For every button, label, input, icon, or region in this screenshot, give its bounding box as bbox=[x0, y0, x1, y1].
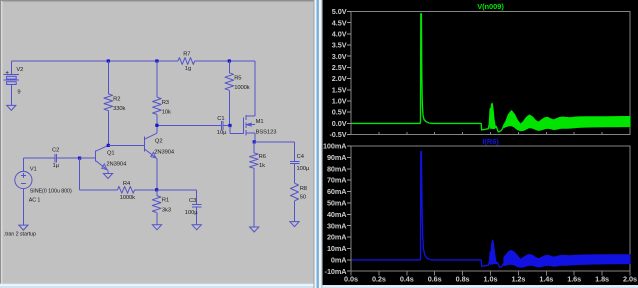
svg-text:V1: V1 bbox=[30, 166, 37, 172]
node C1-R5-gate junction bbox=[228, 124, 231, 127]
svg-text:4.0V: 4.0V bbox=[332, 29, 347, 38]
wire top supply rail left segment bbox=[11, 60, 178, 62]
svg-text:10mA: 10mA bbox=[327, 244, 347, 253]
svg-text:SINE(0 100u 800): SINE(0 100u 800) bbox=[30, 189, 72, 195]
resistor R3 10k bbox=[153, 61, 171, 125]
svg-text:C4: C4 bbox=[297, 154, 305, 160]
resistor R6 1k bbox=[250, 142, 266, 227]
svg-text:0.4s: 0.4s bbox=[400, 275, 414, 284]
svg-text:0.0s: 0.0s bbox=[344, 275, 358, 284]
ground below V2 bbox=[7, 105, 16, 110]
svg-text:C1: C1 bbox=[217, 116, 224, 122]
svg-text:1g: 1g bbox=[185, 66, 191, 72]
svg-text:R7: R7 bbox=[183, 51, 190, 57]
svg-text:3.0V: 3.0V bbox=[332, 52, 347, 61]
svg-text:Q2: Q2 bbox=[155, 139, 163, 145]
capacitor C2 1u bbox=[23, 148, 79, 169]
waveform pane 2 border bbox=[351, 146, 630, 271]
svg-text:1µ: 1µ bbox=[53, 163, 60, 169]
svg-text:1.4s: 1.4s bbox=[539, 275, 553, 284]
resistor R5 1000k bbox=[225, 61, 250, 126]
svg-text:1000k: 1000k bbox=[120, 195, 136, 201]
wire node A to C1 bbox=[157, 124, 221, 126]
transistor Q1 2N3904 bbox=[80, 145, 127, 173]
resistor R1 3k3 bbox=[152, 190, 171, 225]
svg-text:100mA: 100mA bbox=[323, 142, 347, 151]
waveform pane 1 border bbox=[351, 12, 630, 135]
resistor R4 1000k bbox=[118, 181, 136, 201]
svg-text:5.0V: 5.0V bbox=[332, 7, 347, 16]
y axis labels pane 1 bbox=[329, 7, 351, 139]
svg-text:3k3: 3k3 bbox=[162, 207, 171, 213]
capacitor C3 100u bbox=[185, 190, 202, 225]
svg-text:I(R6): I(R6) bbox=[482, 137, 499, 146]
svg-text:BSS123: BSS123 bbox=[256, 130, 277, 136]
wire node to C3 bbox=[157, 189, 197, 191]
svg-text:-0.5V: -0.5V bbox=[329, 130, 346, 139]
svg-text:9: 9 bbox=[17, 89, 20, 95]
wire R4 to emitter node bbox=[135, 189, 157, 191]
battery V2 9V bbox=[3, 61, 23, 105]
wire Q1 collector to Q2 base bbox=[108, 144, 144, 146]
ground below V1 bbox=[19, 225, 28, 230]
svg-text:0.2s: 0.2s bbox=[372, 275, 386, 284]
node rail-R3 junction bbox=[155, 59, 158, 62]
svg-text:90mA: 90mA bbox=[327, 153, 347, 162]
svg-text:100µ: 100µ bbox=[297, 166, 310, 172]
ground below R1 bbox=[152, 225, 161, 230]
svg-text:70mA: 70mA bbox=[327, 176, 347, 185]
svg-text:1.8s: 1.8s bbox=[595, 275, 609, 284]
svg-text:.tran 2 startup: .tran 2 startup bbox=[4, 231, 36, 237]
x axis labels bbox=[344, 132, 637, 284]
svg-text:R5: R5 bbox=[234, 76, 241, 82]
svg-text:1.0V: 1.0V bbox=[332, 97, 347, 106]
wire output node to C4 branch bbox=[254, 141, 295, 143]
ground below C3 bbox=[192, 225, 201, 230]
svg-text:50mA: 50mA bbox=[327, 199, 347, 208]
capacitor C4 100u bbox=[290, 142, 310, 183]
resistor R8 50 bbox=[291, 183, 307, 221]
capacitor C1 10u bbox=[217, 116, 230, 136]
trace V(n009) green bbox=[352, 14, 631, 132]
node Q2 collector junction bbox=[155, 124, 158, 127]
node Q1 collector junction bbox=[107, 144, 110, 147]
svg-text:0.6s: 0.6s bbox=[428, 275, 442, 284]
wire top supply rail right segment bbox=[195, 60, 256, 62]
svg-text:+: + bbox=[5, 69, 9, 76]
svg-text:R1: R1 bbox=[162, 198, 169, 204]
ground below R8 bbox=[290, 222, 299, 227]
trace I(R6) blue bbox=[352, 152, 631, 268]
svg-text:R6: R6 bbox=[259, 154, 266, 160]
svg-text:100µ: 100µ bbox=[185, 210, 198, 216]
svg-text:1k: 1k bbox=[259, 163, 265, 169]
svg-text:AC 1: AC 1 bbox=[29, 197, 41, 203]
svg-text:R4: R4 bbox=[123, 181, 131, 187]
svg-text:R3: R3 bbox=[162, 100, 169, 106]
voltage source V1 SINE bbox=[15, 158, 72, 225]
svg-text:R8: R8 bbox=[300, 186, 307, 192]
svg-text:1.2s: 1.2s bbox=[511, 275, 525, 284]
svg-text:C3: C3 bbox=[189, 198, 196, 204]
svg-text:V(n009): V(n009) bbox=[477, 2, 504, 11]
svg-text:1.5V: 1.5V bbox=[332, 85, 347, 94]
svg-text:2.0V: 2.0V bbox=[332, 74, 347, 83]
node emitter-R1-C3 junction bbox=[155, 188, 158, 191]
svg-text:50: 50 bbox=[300, 194, 306, 200]
svg-text:Q1: Q1 bbox=[107, 150, 115, 156]
svg-text:1.6s: 1.6s bbox=[567, 275, 581, 284]
ground below R6 bbox=[250, 227, 259, 232]
svg-text:60mA: 60mA bbox=[327, 187, 347, 196]
wire base node down bbox=[79, 158, 81, 190]
svg-text:0mA: 0mA bbox=[331, 255, 347, 264]
svg-text:0.5V: 0.5V bbox=[332, 108, 347, 117]
svg-text:330k: 330k bbox=[113, 106, 125, 112]
svg-text:40mA: 40mA bbox=[327, 210, 347, 219]
svg-text:M1: M1 bbox=[256, 119, 264, 125]
svg-text:V2: V2 bbox=[16, 67, 23, 73]
svg-text:2N3904: 2N3904 bbox=[154, 149, 175, 155]
node C2-base junction bbox=[78, 157, 81, 160]
wire to R4 bbox=[80, 189, 118, 191]
svg-text:10µ: 10µ bbox=[217, 130, 227, 136]
svg-text:C2: C2 bbox=[52, 148, 59, 154]
resistor R7 bbox=[178, 51, 195, 72]
svg-text:10k: 10k bbox=[162, 110, 171, 116]
svg-text:0.8s: 0.8s bbox=[456, 275, 470, 284]
svg-text:2.5V: 2.5V bbox=[332, 63, 347, 72]
node rail-R5 junction bbox=[228, 59, 231, 62]
transistor M1 BSS123 nmos bbox=[244, 61, 277, 142]
svg-text:1.0s: 1.0s bbox=[484, 275, 498, 284]
svg-text:20mA: 20mA bbox=[327, 233, 347, 242]
node M1 source output junction bbox=[253, 140, 256, 143]
wire gate connection bbox=[229, 126, 231, 134]
svg-text:4.5V: 4.5V bbox=[332, 18, 347, 27]
svg-text:1000k: 1000k bbox=[234, 85, 250, 91]
transistor Q2 2N3904 bbox=[145, 125, 175, 190]
svg-text:R2: R2 bbox=[113, 97, 120, 103]
ground below Q1 emitter bbox=[103, 174, 112, 179]
y axis labels pane 2 bbox=[323, 142, 351, 276]
svg-text:2N3904: 2N3904 bbox=[106, 161, 127, 167]
svg-text:2.0s: 2.0s bbox=[623, 275, 637, 284]
node rail-R2 junction bbox=[107, 59, 110, 62]
svg-text:30mA: 30mA bbox=[327, 221, 347, 230]
svg-text:3.5V: 3.5V bbox=[332, 41, 347, 50]
svg-text:80mA: 80mA bbox=[327, 164, 347, 173]
svg-text:0.0V: 0.0V bbox=[332, 119, 347, 128]
resistor R2 330k bbox=[104, 61, 126, 145]
